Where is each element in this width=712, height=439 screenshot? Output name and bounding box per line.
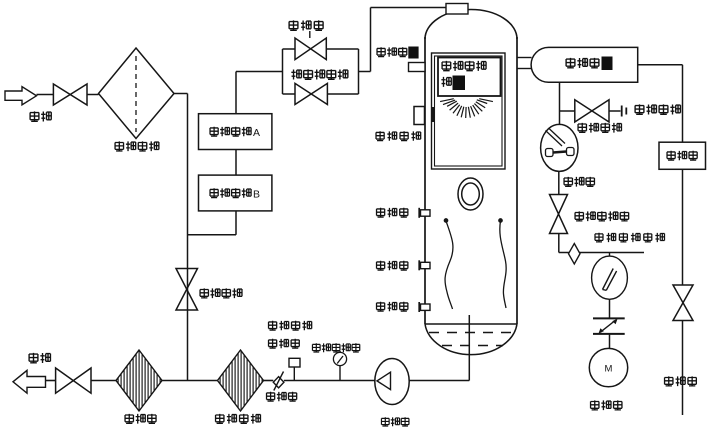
inlet block arrow (jin you / oil in)	[5, 87, 37, 105]
check valve (zhi hui fa)	[273, 372, 284, 391]
vessel liquid line	[425, 323, 517, 325]
flexible coupling	[593, 318, 625, 334]
label: zhi-hui-fa text	[267, 392, 297, 402]
wire: stop valve down	[558, 234, 560, 253]
outlet pressure gauge	[333, 351, 346, 366]
label: gao-ye-wei text	[377, 208, 408, 218]
customer port symbol	[622, 106, 627, 117]
liquid dashes row2	[442, 345, 503, 347]
wire: loop top-right	[326, 48, 358, 50]
label: ke-hu-jie-kou text	[635, 104, 680, 114]
spray fan rays	[440, 99, 493, 118]
wire: loop bottom-left	[283, 93, 296, 95]
wire: up to vessel top	[370, 8, 372, 72]
fine filter (jing lv qi) hatched diamond	[116, 350, 162, 411]
outlet pump (chu you beng)	[375, 359, 409, 405]
vacuum stop valve (zhen kong jie zhi fa)	[550, 195, 568, 234]
wire: loop top-left	[283, 48, 296, 50]
inner chamber rectangle	[432, 53, 506, 169]
label: jia-re-xi-tong-A text	[210, 127, 251, 137]
wire: valve to primary filter	[87, 94, 99, 96]
wire: tank to drain valve	[682, 169, 684, 285]
photoelectric switch tab	[414, 107, 425, 125]
wire: vessel to cooler top	[517, 57, 532, 59]
heater box A (jia re xi tong A)	[199, 114, 272, 150]
primary filter (yi ji guo lv) diamond	[99, 48, 175, 139]
wire: tee to vacuum valve	[560, 110, 575, 112]
wire: arrow to outlet valve	[46, 380, 56, 382]
wire: heater A to heater B	[235, 150, 237, 176]
wire: to valve loop	[236, 71, 283, 73]
liquid dashes row1	[429, 332, 511, 334]
roots pump (luo ci beng)	[541, 124, 578, 171]
vacuum draw valve (chou zhen kong fa)	[575, 100, 609, 122]
wire: to check valve	[264, 380, 274, 382]
wire: down to water tank	[682, 65, 684, 142]
wire: check valve to outlet pump	[284, 380, 375, 382]
label: chu-you-beng text	[381, 417, 408, 426]
wire: coupling to motor	[609, 334, 611, 349]
label: guang-dian-kai-guan text	[376, 131, 421, 141]
label: zhen-kong-beng-pai-qi-kou text	[595, 233, 665, 242]
wire: valve to customer port	[609, 110, 621, 112]
label: chou-zhen-kong-fa text	[578, 123, 621, 133]
label: yi-ji-guo-lv text	[115, 141, 159, 151]
internal circulation valve (nei xun huan fa)	[176, 269, 198, 311]
wire: heater B to riser	[188, 234, 237, 236]
label: ji-shui-guan text	[667, 151, 697, 161]
wire: loop bottom-right	[327, 93, 358, 95]
label: zhen-kong-jie-zhi-fa text	[575, 211, 629, 221]
label: luo-ci-beng text	[564, 177, 594, 187]
wire: exhaust line	[559, 252, 644, 254]
wire: gauge to coupling	[609, 299, 611, 318]
label: bu-you-fa text	[289, 20, 323, 30]
vacuum pump head with vane	[592, 256, 628, 299]
wire: roots pump to stop valve	[558, 171, 560, 194]
wire: below drain valve	[682, 321, 684, 416]
wire: arrow to inlet valve	[37, 94, 54, 96]
inlet solenoid valve (jin you dian ci fa)	[295, 83, 327, 104]
vessel right wall	[516, 37, 518, 324]
wire: loop outlet	[359, 71, 371, 73]
outlet pressure controller box	[289, 358, 300, 367]
wire: filter to riser	[174, 93, 188, 95]
vessel left wall	[424, 37, 426, 324]
spray atomizer box (pen lin wu hua zhuang zhi)	[438, 58, 501, 97]
wire: fine filter to semi-fine filter	[162, 380, 218, 382]
stem of bu-you-fa	[309, 31, 311, 38]
wire: heater A up	[235, 72, 237, 114]
svg-text:A: A	[253, 127, 260, 139]
outlet block arrow (chu you)	[13, 370, 46, 393]
spray curtain left	[444, 219, 453, 309]
vessel bottom head	[425, 324, 517, 355]
high level tab	[419, 208, 430, 218]
label: leng-que-zhuang-zhi text	[566, 58, 599, 68]
sight glass double ellipse	[458, 178, 483, 210]
outlet valve	[56, 368, 91, 393]
top-up valve (bu you fa)	[295, 38, 326, 60]
dome inlet stub	[446, 4, 468, 15]
wire: cooler down to roots pump	[559, 82, 561, 124]
label: jin-you text	[30, 111, 51, 121]
wire: main riser down	[187, 94, 189, 381]
label: kong-zhi-qi text	[269, 339, 300, 349]
label: jia-re-xi-tong-B text	[210, 188, 251, 198]
label: zhuang-zhi text	[441, 77, 451, 87]
defoamer tab	[409, 63, 426, 72]
label: chu-you-ya-li-biao text	[312, 343, 359, 352]
label: chu-you text	[29, 353, 50, 363]
label: pai-shui-fa text	[665, 376, 697, 386]
wire: cooler to water tank drop	[638, 64, 683, 66]
spray curtain right	[499, 219, 506, 308]
label: nei-xun-huan-fa text	[200, 288, 242, 298]
wire: heater B down	[235, 211, 237, 235]
wire: loop right vertical	[358, 49, 360, 94]
label: chu-you-ya-li text	[269, 321, 312, 331]
wire: pump to vessel leg	[409, 380, 469, 382]
label: zhen-kong-beng text	[591, 400, 622, 410]
wire: vessel bottom outlet	[468, 315, 470, 381]
label: pen-lin-wu-hua text	[442, 61, 486, 71]
label: jin-you-dian-ci-fa text	[291, 69, 348, 79]
wire: top run to vessel dome	[371, 7, 447, 9]
drain valve (pai shui fa)	[673, 285, 693, 321]
wire: loop left vertical	[282, 49, 284, 94]
cooler (leng que zhuang zhi) stadium	[531, 47, 638, 82]
stem: controller	[293, 367, 295, 381]
vacuum vessel dome	[425, 10, 517, 40]
water collection tank (ji shui guan)	[659, 142, 706, 169]
label: jing-lv-qi text	[125, 414, 156, 424]
low level tab	[419, 302, 430, 312]
exhaust port check diamond	[569, 244, 581, 265]
label: xiao-pao-zhuang-zhi text	[377, 47, 407, 57]
svg-text:M: M	[605, 364, 613, 375]
label: zhong-ye-wei text	[377, 261, 408, 271]
wire: vessel to cooler bottom	[517, 68, 532, 70]
label: di-ye-wei text	[377, 302, 408, 312]
wire: valve to fine filter	[91, 380, 116, 382]
mid level tab	[419, 260, 430, 270]
stem: pressure gauge	[339, 366, 341, 381]
svg-text:B: B	[253, 188, 260, 200]
stem: vacuum gauge	[609, 253, 611, 257]
inlet valve	[53, 84, 87, 105]
semi-fine filter (ban jing lv qi) hatched diamond	[218, 350, 264, 411]
heater box B (jia re xi tong B)	[199, 175, 272, 211]
vacuum pump motor M	[589, 348, 627, 386]
label: ban-jing-lv-qi text	[216, 414, 261, 424]
